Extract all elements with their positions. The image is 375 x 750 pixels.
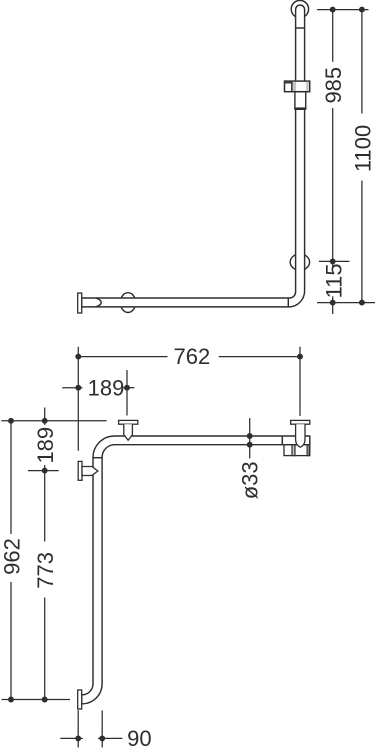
svg-text:90: 90: [127, 726, 151, 750]
bottom view: rail seam near bracket: [93, 457, 102, 459]
dim line 90 left stub: [60, 737, 82, 739]
top view: slider block divider: [291, 81, 293, 92]
dim dot 115 bottom: [330, 300, 336, 306]
svg-text:773: 773: [33, 552, 58, 589]
dim extension line at bar center y=302.6: [317, 302, 375, 304]
dim line 115: [332, 261, 334, 266]
top view: collar on vertical rod near corner: [290, 254, 309, 270]
dim dot 189h right: [124, 385, 130, 391]
top view: corner seam on bar: [287, 298, 289, 307]
bottom view: holder block under bar right end: [284, 445, 310, 456]
dim dot 90 right: [99, 735, 105, 741]
extension line x=127: [126, 370, 128, 416]
top view: slider block gray band right: [306, 82, 308, 91]
svg-text:189: 189: [33, 427, 58, 464]
dim line 985: [332, 10, 334, 62]
bottom view: holder block gray band left: [292, 445, 295, 456]
top view: bar end-cap arc near flange: [96, 298, 101, 307]
dim line 189 vertical / 773 chain: [44, 408, 46, 425]
svg-text:762: 762: [174, 344, 211, 369]
svg-text:ø33: ø33: [238, 461, 263, 499]
extension line x=78.3: [77, 347, 79, 451]
top view: rod seam below ring: [296, 27, 305, 29]
svg-text:189: 189: [88, 375, 125, 400]
dim dot 762 left: [75, 354, 81, 360]
top view: slider knob top thick corner: [285, 81, 292, 83]
dim line 90 right stub: [98, 737, 122, 739]
dim dot 773 bottom: [42, 697, 48, 703]
bottom view: rail tube (vertical rail + horizontal bar): [82, 436, 310, 704]
svg-text:1100: 1100: [351, 125, 375, 172]
dim extension line y=700: [2, 699, 71, 701]
bottom view: holder block gray band right: [307, 445, 309, 456]
top view: slider block gray band left: [293, 82, 297, 91]
svg-text:985: 985: [321, 67, 346, 104]
bottom view: right fitting stem rounded tip: [296, 424, 305, 447]
dim dot 962 bottom: [8, 697, 14, 703]
dim dot 1100 top: [359, 7, 365, 13]
dim extension line y=470.6: [28, 470, 59, 472]
top view: wall flange: [78, 293, 82, 313]
top view: slider top block: [285, 81, 310, 92]
extension line x=300: [299, 347, 301, 416]
bottom view: left fitting cap: [119, 420, 138, 424]
top view: ring at top of vertical rod: [291, 0, 308, 17]
bottom view: right fitting cap: [291, 420, 310, 424]
bottom view: mid-rail wall flange: [78, 461, 82, 480]
bottom view: left fitting stem with pointed tip: [124, 424, 133, 440]
dim dot 189v top: [42, 418, 48, 424]
dim dot 985 top: [330, 7, 336, 13]
dim dot 189h left: [75, 385, 81, 391]
dim dot 962 top: [8, 418, 14, 424]
bottom view: bottom wall flange: [78, 690, 82, 709]
dim dot 985/115: [330, 258, 336, 264]
dim dot o33 bottom: [247, 442, 253, 448]
dim extension line at corner collar y=261.4: [319, 260, 350, 262]
dim line 762: [78, 356, 167, 358]
dim line 1100: [361, 10, 363, 114]
dim dot 762 right: [297, 354, 303, 360]
bottom view: bar seam near right block: [281, 436, 283, 445]
dim line 189 horizontal: [62, 387, 82, 389]
top view: collar on horizontal bar near wall flange: [120, 293, 135, 313]
top view: slider body below block: [295, 92, 306, 109]
dim line o33: [249, 418, 251, 458]
svg-text:115: 115: [321, 263, 346, 298]
top view: L-shaped tube (vertical rod + horizontal bar): [82, 5, 305, 307]
dim 90 extension stubs: [77, 710, 79, 747]
bottom view: mid-rail bracket arrow: [82, 467, 98, 476]
svg-text:962: 962: [0, 538, 24, 575]
dim extension line top right y=9.6: [317, 9, 369, 11]
dim extension line y=420.8: [1, 420, 106, 422]
dim dot 189v bottom: [42, 468, 48, 474]
dim dot o33 top: [247, 433, 253, 439]
top view: slider body thick bottom: [294, 107, 306, 110]
dim line 962: [10, 421, 12, 534]
dim dot 90 left: [75, 735, 81, 741]
dim dot 1100 bottom: [359, 300, 365, 306]
